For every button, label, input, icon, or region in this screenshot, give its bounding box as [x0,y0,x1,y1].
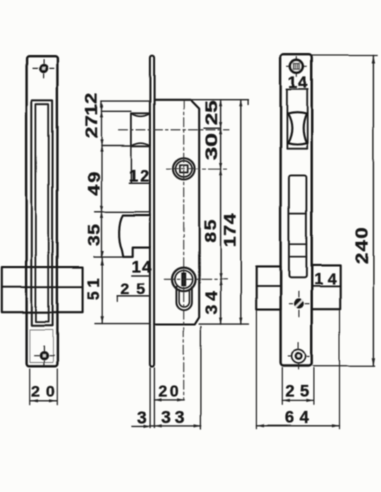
screw bottom (right plate) [288,343,309,370]
svg-text:174: 174 [221,213,239,247]
svg-text:30: 30 [202,133,221,160]
svg-text:12: 12 [128,166,151,185]
svg-text:25: 25 [203,100,222,125]
svg-text:51: 51 [84,274,103,300]
bottom extension lines middle [150,327,201,430]
roller ext + dim 12 (latch) [129,146,150,183]
dimension 20 (backset) [154,399,184,401]
follower (square spindle hub) [173,158,195,180]
label 174 (vertical right) [221,213,239,247]
label 35 (vertical) [84,224,103,247]
svg-text:35: 35 [84,224,103,247]
right dim column ticks [191,100,249,324]
bolt block right part (right view) [312,265,341,309]
label 25 (cylinder) with line [117,296,150,302]
faceplate side view (middle) [150,56,154,367]
faint inner outline bottom of left plate [30,330,53,363]
roller pocket (right view) [287,89,307,149]
bolt block left part (right view) [256,267,280,310]
svg-text:27: 27 [83,115,102,138]
dimension 240 (overall height) [312,55,378,366]
svg-text:25: 25 [120,281,152,298]
latch bolt (middle view) [119,215,150,256]
dimension 20 (left view width) [30,369,58,405]
dimension 3 and 33 [131,425,201,427]
label 12 (vertical) [82,93,101,115]
roller bolt (middle view) [131,113,150,146]
svg-text:20: 20 [158,383,181,400]
svg-text:20: 20 [31,384,61,401]
svg-text:64: 64 [285,409,314,427]
bolt block (front view, left) [2,267,83,312]
faceplate front view (left) [27,56,58,366]
svg-text:49: 49 [84,170,103,196]
centre line cylinder axis horizontal [164,278,227,280]
screw top (right plate) [287,57,307,77]
svg-text:25: 25 [285,383,314,401]
label 14 (latch) with line [132,275,150,277]
deadbolt pocket (right view) [289,176,307,278]
euro cylinder hole [172,268,196,311]
label 27 (vertical) [83,115,102,138]
label 25 (vertical right) [203,100,222,125]
left ticks of stacked dims 12/27/49/35 [94,101,150,324]
screw bottom (left plate) [34,346,53,366]
label 85 (vertical right) [201,218,220,243]
centre line follower axis [167,168,230,170]
svg-text:12: 12 [82,93,101,115]
centre line roller axis [119,129,230,131]
screw middle (right plate) [289,292,309,317]
svg-text:34: 34 [201,287,221,314]
label 34 (vertical right) [201,287,221,314]
svg-text:33: 33 [161,407,188,427]
dimension 25 (plate width) [282,368,314,405]
svg-text:3: 3 [137,407,147,427]
svg-text:14: 14 [314,271,341,288]
dim line 25/30/85/34 [220,100,222,324]
label 49 (vertical) [84,170,103,196]
svg-text:240: 240 [353,226,372,264]
lock case outline (middle view) [154,100,199,325]
dimension 51 (vertical, left of middle view) [101,257,104,324]
roller (right view, waisted) [288,113,307,145]
stacked dimension line (left of middle view) [101,101,103,257]
centre line vertical (cylinder axis) [183,100,185,400]
strike plate outline (right view) [281,54,312,366]
dim line 174 [240,100,242,324]
slot in faceplate (front view) [32,100,53,325]
label 30 (vertical right) [202,133,221,160]
label 240 (vertical) [353,226,372,264]
svg-text:85: 85 [201,218,220,243]
screw top (left plate) [33,60,54,78]
svg-text:14: 14 [132,257,153,276]
dimension 64 (block width) [256,311,339,429]
